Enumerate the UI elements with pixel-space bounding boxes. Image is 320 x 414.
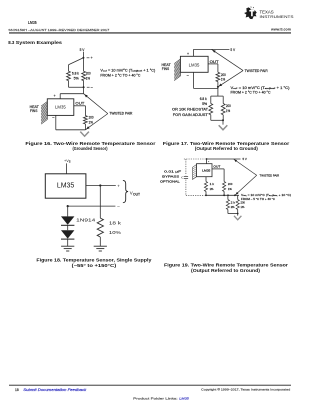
svg-text:S: S <box>69 160 71 164</box>
fig19 wire 1k to rail <box>205 191 207 195</box>
fig18 output brace <box>123 180 128 202</box>
fig18 wire resistor to ground <box>99 237 101 246</box>
fig18 wire minus rail <box>68 205 116 207</box>
svg-text:+: + <box>208 161 210 163</box>
fig19 wire 200 right top <box>237 195 239 199</box>
fig19 label TWISTED PAIR <box>260 174 280 178</box>
svg-text:(Output Referred to Ground): (Output Referred to Ground) <box>195 146 259 151</box>
fig19 resistor 2k 2% <box>226 200 229 210</box>
fig16 node supply junction dot <box>82 57 84 59</box>
fig19 plus pin label <box>208 161 210 163</box>
fig17 LM35 box label <box>189 62 200 67</box>
svg-text:SNIS159H –AUGUST 1999–REVISED: SNIS159H –AUGUST 1999–REVISED DECEMBER 2… <box>8 28 109 32</box>
fig18 wire supply to box <box>65 163 67 173</box>
fig19 label OPTIONAL <box>160 179 180 183</box>
svg-text:5 V: 5 V <box>80 48 86 52</box>
svg-text:0.01 µF: 0.01 µF <box>164 170 181 174</box>
footer product folder label <box>133 397 178 401</box>
fig19 pointer to capacitor <box>181 176 184 179</box>
fig19 label 1% lower <box>210 187 214 191</box>
fig18 ground bars right <box>94 246 107 251</box>
fig17 wire split bar top <box>211 95 223 97</box>
fig17 ground arrow <box>219 125 228 130</box>
svg-text:5 V: 5 V <box>243 157 247 161</box>
fig19 twisted pair arrowhead lower <box>236 192 239 195</box>
fig16 wire node to sensor tee <box>83 87 85 93</box>
svg-text:5 V: 5 V <box>230 48 236 52</box>
fig19 node dot a <box>205 194 207 196</box>
fig17 wire left branch bottom <box>210 115 212 121</box>
fig18 caption line1 <box>36 257 152 262</box>
svg-text:–: – <box>117 204 120 209</box>
fig17 twisted pair wire upper <box>212 49 244 70</box>
fig16 label 200 output <box>89 116 94 120</box>
fig16 label FINS <box>30 109 38 113</box>
fig16 resistor 200 1% output <box>84 116 88 124</box>
fig19 node dot d <box>234 194 236 196</box>
svg-text:TWISTED PAIR: TWISTED PAIR <box>260 174 280 178</box>
fig18 diode D2 1N914 <box>61 230 74 239</box>
fig17 twisted pair arrowhead lower <box>219 83 222 86</box>
svg-text:LM35: LM35 <box>55 104 66 109</box>
header product title LM35 <box>28 20 37 26</box>
svg-text:10%: 10% <box>109 230 121 235</box>
fig19 dashed bypass left upper <box>185 159 187 175</box>
fig18 output node dot <box>99 184 101 186</box>
fig16 ground arrow <box>80 132 89 137</box>
svg-text:LM35: LM35 <box>28 20 37 26</box>
fig18 diode D1 1N914 <box>61 216 74 225</box>
svg-text:(Output Referred to Ground): (Output Referred to Ground) <box>191 268 261 273</box>
svg-text:INSTRUMENTS: INSTRUMENTS <box>260 15 295 19</box>
svg-text:OUT: OUT <box>133 193 140 197</box>
fig16 wire resistor to bottom node <box>84 124 86 130</box>
fig17 wire LM35 minus to vout node <box>194 72 218 88</box>
svg-text:FROM + 2 °C TO + 40 °C: FROM + 2 °C TO + 40 °C <box>100 74 141 78</box>
fig17 label HEAT <box>162 63 171 67</box>
fig19 label 2k <box>231 201 236 205</box>
fig19 wire OUT to resistor <box>212 169 224 182</box>
fig16 wire diagonal to left branch <box>69 58 84 65</box>
svg-text:Copyright © 1999–2017, Texas I: Copyright © 1999–2017, Texas Instruments… <box>201 388 290 392</box>
fig19 wire box to supply rail <box>206 159 208 164</box>
section number 8.3 <box>8 40 15 45</box>
svg-text:18 k: 18 k <box>109 221 122 226</box>
fig16 minus terminal mark <box>87 86 93 90</box>
fig19 twisted pair wire upper <box>234 159 257 175</box>
fig19 wire 200 right bottom <box>237 210 239 214</box>
fig17 wire right branch bottom <box>222 115 224 121</box>
fig19 label 200 right <box>241 201 246 205</box>
fig17 caption line2 <box>195 146 259 151</box>
fig18 resistor 18k 10% <box>97 218 103 237</box>
fig19 bottom join bar <box>228 213 238 215</box>
fig19 vout equation line1 <box>241 193 291 197</box>
fig19 dashed bypass left lower <box>185 180 187 196</box>
fig18 LM35 box <box>45 174 86 198</box>
svg-text:FINS: FINS <box>30 109 38 113</box>
svg-text:200: 200 <box>226 104 231 108</box>
fig16 wire left branch top <box>68 65 70 72</box>
svg-text:FINS: FINS <box>162 67 170 71</box>
fig16 label HEAT <box>30 105 39 109</box>
fig17 wire right branch top <box>222 96 224 103</box>
fig16 twisted pair wire lower <box>85 114 107 130</box>
fig16 label TWISTED PAIR <box>109 112 133 116</box>
fig17 OUT pin label <box>210 60 219 64</box>
fig16 OUT pin label <box>75 102 84 106</box>
svg-text:200: 200 <box>86 71 91 75</box>
fig19 caption line1 <box>164 262 288 267</box>
svg-text:1%: 1% <box>228 187 232 191</box>
fig19 label BYPASS <box>162 175 179 179</box>
svg-text:Vₒᵤₜ = 10 mV/°C (Tₐₘᵦᵢₑₙₜ + 10: Vₒᵤₜ = 10 mV/°C (Tₐₘᵦᵢₑₙₜ + 10 °C) <box>241 193 291 197</box>
fig18 wire output <box>86 185 116 187</box>
footer copyright <box>201 388 290 392</box>
fig17 vout node dot <box>217 86 219 88</box>
fig16 wire LM35 minus to bottom node <box>56 115 86 129</box>
svg-text:200: 200 <box>241 201 246 205</box>
fig17 label TWISTED PAIR <box>245 69 269 73</box>
fig16 twisted pair wire upper <box>84 94 108 114</box>
fig17 vout equation line1 <box>231 86 290 90</box>
header www.ti.com <box>270 28 291 32</box>
svg-text:200: 200 <box>221 73 226 77</box>
fig19 label 2% <box>231 205 235 209</box>
fig17 label 6.8k <box>200 97 207 101</box>
fig19 wire box bottom to resistor <box>205 177 207 182</box>
fig18 LM35 box label <box>57 180 74 189</box>
svg-text:+: + <box>54 94 56 98</box>
fig16 label 1% output <box>89 121 93 125</box>
fig19 caption line2 <box>191 268 261 273</box>
svg-text:5%: 5% <box>74 77 79 81</box>
svg-text:LM35: LM35 <box>202 168 211 172</box>
svg-text:LM35: LM35 <box>179 397 189 401</box>
svg-text:Vₒᵤₜ = 10 mV/°C (Tₐₘᵦᵢₑₙₜ + 1: Vₒᵤₜ = 10 mV/°C (Tₐₘᵦᵢₑₙₜ + 1 °C) <box>100 69 155 73</box>
svg-text:Figure 18. Temperature Sensor,: Figure 18. Temperature Sensor, Single Su… <box>36 257 152 262</box>
fig17 resistor 200 1% gain <box>221 104 225 115</box>
svg-text:1%: 1% <box>241 205 245 209</box>
svg-text:200: 200 <box>89 116 94 120</box>
fig16 twisted pair arrowhead lower <box>86 126 89 129</box>
fig19 LM35 box label <box>202 168 211 172</box>
svg-text:OPTIONAL: OPTIONAL <box>160 179 180 183</box>
svg-text:1%: 1% <box>210 187 214 191</box>
fig16 plus terminal mark <box>87 56 93 60</box>
fig17 wire OUT to resistor <box>208 64 218 72</box>
svg-text:FROM − 5 °C TO + 40 °C: FROM − 5 °C TO + 40 °C <box>241 197 275 201</box>
fig17 wire resistor to vout node <box>217 82 219 87</box>
fig16 twisted pair arrowhead upper <box>84 94 87 97</box>
fig17 wire to ground <box>222 120 224 124</box>
fig19 vout equation line2 <box>241 197 275 201</box>
fig19 supply rail <box>206 158 241 160</box>
fig18 label 18k <box>109 221 122 226</box>
svg-text:OR 10K RHEOSTAT: OR 10K RHEOSTAT <box>172 108 208 112</box>
fig16 wire tee to LM35 plus <box>60 94 83 99</box>
header doc number line <box>8 28 109 32</box>
fig19 label 0.01 uF <box>164 170 181 174</box>
fig17 label FOR GAIN ADJUST <box>173 113 208 117</box>
svg-text:1N914: 1N914 <box>76 217 96 222</box>
fig18 minus terminal label <box>117 204 120 209</box>
fig19 dashed bypass top <box>184 158 205 160</box>
fig17 label OR 10K RHEOSTAT <box>172 108 208 112</box>
fig19 join node dot <box>237 213 239 215</box>
fig17 plus pin label <box>187 52 189 56</box>
svg-text:1 k: 1 k <box>210 182 215 186</box>
fig19 node dot b <box>223 194 225 196</box>
fig17 label 200 output <box>221 73 226 77</box>
fig18 label 1N914 <box>76 217 96 222</box>
fig17 twisted pair wire lower <box>218 71 243 87</box>
fig18 wire diode to ground <box>67 239 69 246</box>
svg-text:5%: 5% <box>202 102 207 106</box>
svg-text:+: + <box>117 183 120 188</box>
svg-text:FROM + 2 °C TO + 40 °C: FROM + 2 °C TO + 40 °C <box>231 91 272 95</box>
fig16 wire left branch bottom <box>68 81 70 88</box>
footer product folder link LM35 <box>179 397 189 401</box>
fig16 label 6.8k <box>72 71 79 75</box>
svg-text:6.8 k: 6.8 k <box>72 71 79 75</box>
fig17 resistor 6.8k gain <box>209 104 213 115</box>
fig19 capacitor 0.01uF plates <box>184 176 188 178</box>
fig18 plus terminal label <box>117 183 120 188</box>
fig19 dashed bypass bottom <box>186 194 205 196</box>
fig16 wire right branch top <box>83 58 85 71</box>
svg-text:18: 18 <box>15 388 19 392</box>
svg-text:(−55° to +150°C): (−55° to +150°C) <box>72 263 117 268</box>
fig19 twisted pair arrowhead upper <box>234 160 237 163</box>
svg-text:(Grounded Sensor): (Grounded Sensor) <box>73 146 109 151</box>
svg-text:TEXAS: TEXAS <box>260 10 274 15</box>
footer link Submit Documentation Feedback <box>23 388 87 392</box>
fig17 label 1% gain <box>226 109 230 113</box>
fig16 heat fins hatching <box>41 102 47 125</box>
svg-text:2 k: 2 k <box>231 201 236 205</box>
section title System Examples <box>16 40 63 45</box>
fig16 wire OUT to resistor <box>74 106 86 116</box>
fig17 label 1% output <box>221 78 225 82</box>
fig19 resistor 200 1% right <box>236 200 239 210</box>
footer page number 18 <box>15 388 19 392</box>
svg-text:LM35: LM35 <box>57 180 74 189</box>
fig16 wire from 5V to node <box>82 52 84 58</box>
fig17 wire left branch top <box>210 96 212 103</box>
svg-text:1%: 1% <box>221 78 225 82</box>
fig16 label 200 upper <box>86 71 91 75</box>
svg-text:8.3: 8.3 <box>8 40 15 45</box>
fig19 ground arrow <box>234 216 241 220</box>
fig19 resistor 1k 1% <box>204 182 207 192</box>
svg-text:FOR GAIN ADJUST: FOR GAIN ADJUST <box>173 113 208 117</box>
fig17 twisted pair arrowhead upper <box>212 50 215 53</box>
svg-text:TWISTED PAIR: TWISTED PAIR <box>245 69 269 73</box>
svg-text:OUT: OUT <box>213 164 220 168</box>
svg-text:Product Folder Links:: Product Folder Links: <box>133 397 178 401</box>
fig19 wire 2k top <box>227 195 229 199</box>
svg-text:1%: 1% <box>86 77 90 81</box>
fig19 resistor 200 1% output <box>223 182 226 192</box>
fig19 label 1% right <box>241 205 245 209</box>
fig16 resistor 200 1% upper <box>82 71 86 80</box>
svg-text:OUT: OUT <box>210 60 219 64</box>
fig16 vout equation line2 <box>100 74 141 78</box>
fig16 wire bottom bar <box>69 86 84 88</box>
svg-text:200: 200 <box>228 182 233 186</box>
TI logo word TEXAS <box>260 10 274 15</box>
fig19 twisted pair wire lower <box>235 175 257 195</box>
fig18 wire minus node to diode <box>67 206 69 216</box>
fig17 LM35 box <box>180 56 208 72</box>
fig19 5V label <box>243 157 247 161</box>
fig17 vout equation line2 <box>231 91 272 95</box>
svg-text:OUT: OUT <box>75 102 84 106</box>
fig16 plus pin label <box>54 94 56 98</box>
fig17 heat fins hatching <box>174 59 180 81</box>
fig17 wire vout node down <box>217 87 219 96</box>
fig19 bottom rail <box>205 194 239 196</box>
fig16 LM35 box <box>47 99 74 116</box>
TI logo word INSTRUMENTS <box>260 15 295 19</box>
fig19 LM35 box <box>197 164 213 177</box>
svg-text:–: – <box>91 86 93 90</box>
svg-text:+: + <box>91 56 93 60</box>
fig19 LM35 box 3d side <box>193 165 197 180</box>
fig19 OUT pin label <box>213 164 220 168</box>
fig19 node dot c <box>227 194 229 196</box>
svg-text:System Examples: System Examples <box>16 40 63 45</box>
fig17 caption line1 <box>163 141 290 146</box>
svg-text:TWISTED PAIR: TWISTED PAIR <box>109 112 133 116</box>
fig18 wire output node to resistor <box>99 186 101 219</box>
fig18 wire between diodes <box>67 225 69 230</box>
fig18 minus node dot <box>67 205 69 207</box>
fig19 label 1k <box>210 182 215 186</box>
fig17 wire plus to 5V rail <box>194 49 230 56</box>
TI logo Texas map glyph <box>244 7 257 20</box>
svg-text:www.ti.com: www.ti.com <box>270 28 291 32</box>
fig16 caption line2 <box>73 146 109 151</box>
fig16 minus pin label <box>52 115 54 119</box>
fig17 label 200 gain <box>226 104 231 108</box>
fig19 label 1% output <box>228 187 232 191</box>
footer rule <box>9 384 291 386</box>
svg-text:6.8 k: 6.8 k <box>200 97 207 101</box>
fig16 label 1% upper <box>86 77 90 81</box>
header rule <box>9 32 291 34</box>
fig19 wire to ground <box>237 214 239 216</box>
fig18 ground bars left <box>61 246 74 251</box>
fig18 label 10% <box>109 230 121 235</box>
fig19 wire 2k bottom <box>227 210 229 214</box>
svg-text:+: + <box>187 52 189 56</box>
svg-text:1%: 1% <box>89 121 93 125</box>
fig17 label 5% <box>202 102 207 106</box>
fig18 +Vs supply label <box>64 159 71 164</box>
svg-text:–: – <box>52 115 54 119</box>
fig17 label FINS <box>162 67 170 71</box>
svg-text:Figure 19. Two-Wire Remote Tem: Figure 19. Two-Wire Remote Temperature S… <box>164 262 288 267</box>
fig17 join node dot <box>222 119 224 121</box>
fig16 vout equation line1 <box>100 69 155 73</box>
fig16 resistor 6.8k 5% <box>67 71 71 80</box>
svg-text:2%: 2% <box>231 205 235 209</box>
fig16 node resistor-join dot <box>83 86 85 88</box>
fig17 wire join bar bottom <box>211 119 223 121</box>
svg-text:Submit Documentation Feedback: Submit Documentation Feedback <box>23 388 87 392</box>
fig19 supply node dot <box>206 158 208 160</box>
svg-text:LM35: LM35 <box>189 62 200 67</box>
fig16 label 5% <box>74 77 79 81</box>
fig16 wire right branch bottom <box>83 81 85 88</box>
fig16 LM35 box label <box>55 104 66 109</box>
fig17 resistor 200 1% output <box>216 72 220 81</box>
svg-text:–: – <box>187 74 189 78</box>
svg-text:1%: 1% <box>226 109 230 113</box>
fig16 caption line1 <box>25 141 155 146</box>
fig17 5V label <box>230 48 236 52</box>
fig18 caption line2 <box>72 263 117 268</box>
fig19 label 200 output <box>228 182 233 186</box>
fig19 wire output resistor to rail <box>223 191 225 195</box>
fig18 label VOUT <box>130 190 140 196</box>
svg-text:BYPASS: BYPASS <box>162 175 179 179</box>
fig16 5V supply label <box>80 48 86 52</box>
fig17 minus pin label <box>187 74 189 78</box>
